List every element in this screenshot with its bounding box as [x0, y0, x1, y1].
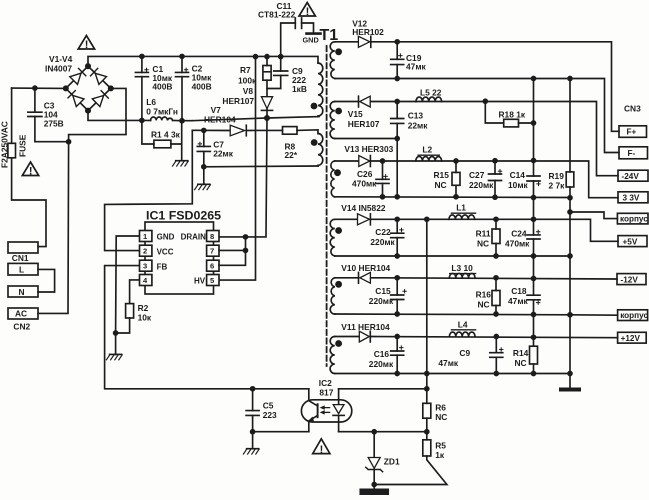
svg-text:-12V: -12V — [621, 275, 639, 284]
svg-text:L2: L2 — [422, 145, 432, 155]
svg-text:NC: NC — [515, 358, 527, 368]
svg-text:корпус: корпус — [620, 215, 648, 224]
svg-text:R19: R19 — [549, 171, 565, 181]
svg-text:L: L — [19, 265, 24, 275]
svg-text:100к: 100к — [238, 76, 257, 86]
svg-text:FUSE: FUSE — [18, 134, 28, 157]
svg-text:R6: R6 — [435, 403, 446, 413]
svg-text:C13: C13 — [408, 111, 424, 121]
svg-text:F+: F+ — [627, 128, 637, 137]
svg-text:C15: C15 — [375, 286, 391, 296]
svg-text:NC: NC — [478, 300, 490, 310]
svg-text:R7: R7 — [240, 65, 251, 75]
svg-text:R14: R14 — [513, 348, 529, 358]
svg-text:C24: C24 — [511, 229, 527, 239]
svg-text:10к: 10к — [138, 313, 152, 323]
svg-text:R11: R11 — [476, 229, 491, 239]
svg-text:47мк: 47мк — [406, 61, 427, 71]
svg-text:NC: NC — [435, 412, 447, 422]
svg-text:2 7к: 2 7к — [549, 181, 566, 191]
svg-text:GND: GND — [157, 233, 175, 242]
svg-text:400B: 400B — [192, 82, 212, 92]
svg-text:V15: V15 — [348, 109, 363, 119]
svg-text:V8: V8 — [243, 86, 254, 96]
svg-text:C16: C16 — [374, 349, 390, 359]
svg-text:NC: NC — [435, 180, 447, 190]
svg-text:C27: C27 — [469, 170, 485, 180]
svg-text:V11 HER104: V11 HER104 — [341, 322, 390, 332]
svg-text:817: 817 — [319, 388, 333, 398]
svg-text:+5V: +5V — [623, 237, 638, 246]
svg-text:!: ! — [320, 444, 324, 456]
svg-text:CT81-222: CT81-222 — [258, 10, 296, 20]
svg-text:1кВ: 1кВ — [292, 84, 307, 94]
svg-text:R1 4 3к: R1 4 3к — [151, 130, 181, 140]
svg-text:V10 HER104: V10 HER104 — [341, 263, 390, 273]
svg-text:47мк: 47мк — [438, 358, 459, 368]
svg-text:V7: V7 — [211, 105, 222, 115]
svg-text:HER102: HER102 — [352, 27, 384, 37]
svg-text:R5: R5 — [435, 441, 446, 451]
svg-text:R16: R16 — [476, 290, 492, 300]
svg-text:2: 2 — [143, 247, 147, 256]
svg-text:L4: L4 — [458, 320, 468, 330]
svg-text:!: ! — [85, 39, 89, 51]
svg-text:3 3V: 3 3V — [623, 194, 640, 203]
svg-text:275B: 275B — [44, 118, 64, 128]
svg-text:C18: C18 — [511, 286, 527, 296]
svg-text:V13 HER303: V13 HER303 — [344, 144, 393, 154]
svg-text:HV: HV — [194, 277, 206, 286]
svg-text:10мк: 10мк — [508, 180, 529, 190]
svg-text:IN4007: IN4007 — [45, 64, 72, 74]
svg-text:400B: 400B — [152, 82, 172, 92]
svg-text:L6: L6 — [146, 97, 156, 107]
svg-text:CN1: CN1 — [12, 253, 29, 263]
svg-text:R18 1к: R18 1к — [499, 110, 526, 120]
svg-text:R15: R15 — [434, 170, 450, 180]
svg-text:C22: C22 — [375, 227, 391, 237]
svg-text:470мк: 470мк — [352, 179, 377, 189]
svg-text:V1-V4: V1-V4 — [49, 54, 73, 64]
svg-text:AC: AC — [15, 309, 27, 319]
svg-text:F-: F- — [628, 149, 636, 158]
svg-text:22мк: 22мк — [408, 121, 429, 131]
svg-text:-24V: -24V — [622, 172, 640, 181]
svg-text:3: 3 — [143, 262, 147, 271]
svg-text:FB: FB — [157, 262, 168, 271]
svg-text:220мк: 220мк — [469, 180, 494, 190]
svg-text:+12V: +12V — [621, 334, 641, 343]
svg-text:1к: 1к — [435, 450, 445, 460]
svg-text:!: ! — [29, 166, 33, 178]
svg-text:ZD1: ZD1 — [384, 457, 400, 467]
svg-text:470мк: 470мк — [505, 239, 530, 249]
svg-text:VCC: VCC — [157, 248, 174, 257]
svg-text:220мк: 220мк — [370, 237, 395, 247]
svg-text:0 7мкГн: 0 7мкГн — [146, 107, 178, 117]
svg-text:T1: T1 — [320, 27, 339, 44]
svg-text:HER104: HER104 — [204, 115, 236, 125]
svg-text:220мк: 220мк — [369, 296, 394, 306]
svg-text:47мк: 47мк — [508, 296, 529, 306]
svg-text:7: 7 — [210, 247, 214, 256]
svg-text:V14 IN5822: V14 IN5822 — [341, 203, 386, 213]
svg-text:L1: L1 — [456, 203, 466, 213]
svg-text:IC1 FSD0265: IC1 FSD0265 — [146, 209, 221, 223]
svg-text:CN3: CN3 — [624, 104, 641, 114]
svg-text:!: ! — [306, 6, 310, 18]
svg-text:C14: C14 — [510, 170, 526, 180]
svg-text:HER107: HER107 — [222, 96, 254, 106]
svg-text:C26: C26 — [357, 169, 373, 179]
svg-text:L5 22: L5 22 — [420, 88, 442, 98]
svg-text:8: 8 — [210, 232, 214, 241]
svg-text:220мк: 220мк — [369, 359, 394, 369]
svg-text:IC2: IC2 — [319, 378, 332, 388]
svg-text:HER107: HER107 — [348, 119, 380, 129]
svg-text:22*: 22* — [285, 150, 298, 160]
svg-text:22мк: 22мк — [213, 149, 234, 159]
svg-text:F2A250VAC: F2A250VAC — [0, 121, 10, 168]
svg-text:NC: NC — [477, 239, 489, 249]
svg-text:N: N — [19, 287, 25, 297]
svg-text:6: 6 — [210, 262, 214, 271]
svg-text:DRAIN: DRAIN — [181, 233, 207, 242]
svg-text:корпус: корпус — [620, 311, 648, 320]
svg-text:CN2: CN2 — [13, 322, 30, 332]
svg-text:GND: GND — [303, 35, 319, 44]
svg-text:C5: C5 — [263, 401, 274, 411]
svg-text:R2: R2 — [138, 303, 149, 313]
svg-text:223: 223 — [263, 410, 277, 420]
svg-text:L3 10: L3 10 — [451, 263, 473, 273]
svg-text:C9: C9 — [459, 348, 470, 358]
